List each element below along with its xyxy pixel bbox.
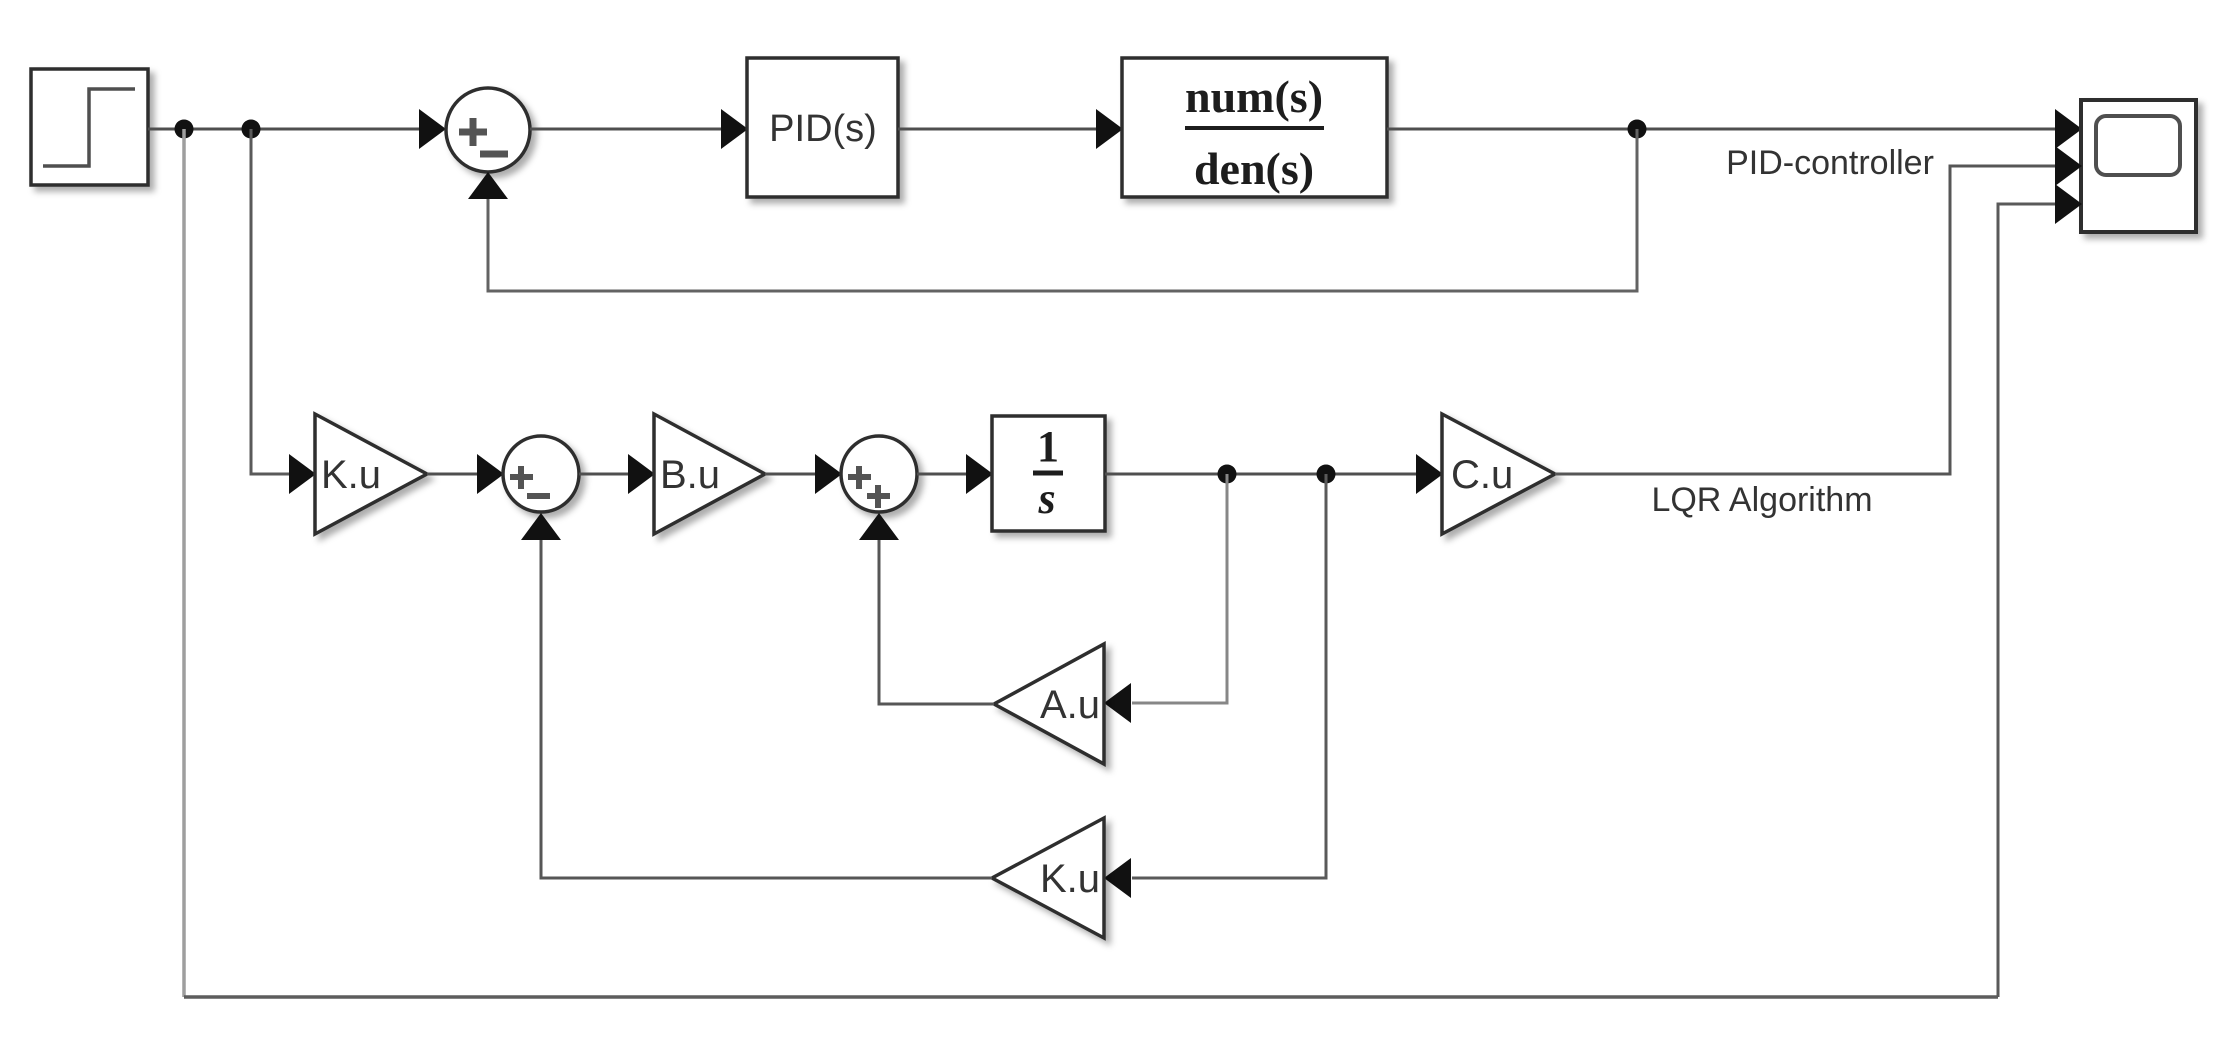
arrowhead into sum3 <box>815 454 842 494</box>
arrowhead into sum3 bottom <box>859 513 899 540</box>
gain block A.u (left pointing) <box>994 644 1104 764</box>
node junction dot D <box>1218 465 1237 484</box>
wire from node E down and left into gain K.u lower <box>1132 474 1326 878</box>
wire PID feedback from node C down and left to sum1 <box>488 129 1637 291</box>
gain block C.u <box>1442 414 1555 534</box>
wire gain B.u to sum3 <box>765 473 816 476</box>
arrowhead into gain K.u <box>289 454 316 494</box>
arrowhead into gain B.u <box>628 454 655 494</box>
step source block Step <box>31 69 148 185</box>
sum junction Sum1 (+-) <box>446 88 530 172</box>
wire sum1 to PID <box>530 128 722 131</box>
node junction dot C <box>1628 120 1647 139</box>
node junction dot B <box>242 120 261 139</box>
svg-text:1: 1 <box>1037 422 1059 471</box>
arrowhead into gain C.u <box>1416 454 1443 494</box>
svg-text:B.u: B.u <box>660 453 720 497</box>
svg-text:C.u: C.u <box>1451 453 1513 497</box>
arrowhead into sum1 bottom <box>468 172 508 199</box>
svg-text:PID-controller: PID-controller <box>1726 144 1934 182</box>
svg-text:K.u: K.u <box>1040 857 1100 901</box>
svg-text:den(s): den(s) <box>1194 143 1314 194</box>
arrowhead into gain K.u lower <box>1104 858 1131 898</box>
svg-text:K.u: K.u <box>321 453 381 497</box>
gain block K.u lower (left pointing) <box>992 818 1104 938</box>
integrator block 1/s <box>992 416 1105 531</box>
svg-text:num(s): num(s) <box>1185 71 1323 122</box>
wire bottom horizontal to the right <box>184 995 1998 999</box>
wire transfer fcn to scope input 1 <box>1387 128 2056 131</box>
gain block K.u (row 2 first) <box>315 414 427 534</box>
svg-text:A.u: A.u <box>1040 683 1100 727</box>
wire PID to transfer fcn <box>898 128 1097 131</box>
arrowhead into scope input 1 <box>2055 109 2082 149</box>
wire gain K.u to sum2 <box>427 473 478 476</box>
wire gain A.u output left and up to sum3 bottom <box>879 540 994 704</box>
arrowhead into PID <box>721 109 748 149</box>
wire from node B down to gain K.u input <box>251 129 290 474</box>
node junction dot E <box>1317 465 1336 484</box>
transfer function block num(s)/den(s) <box>1122 58 1387 197</box>
gain block B.u <box>654 414 765 534</box>
wire gain K.u lower output left and up to sum2 bottom <box>541 540 992 878</box>
svg-text:PID(s): PID(s) <box>769 108 877 150</box>
wire sum3 to integrator <box>917 473 967 476</box>
arrowhead into integrator <box>966 454 993 494</box>
sum junction Sum2 (+-) <box>503 436 579 512</box>
wire gain C.u up to scope input 2 <box>1555 166 2056 474</box>
arrowhead into scope input 3 <box>2055 184 2082 224</box>
wire from node A down along left edge (light) <box>182 129 186 997</box>
arrowhead into sum1 <box>419 109 446 149</box>
wire right vertical up to scope input 3 <box>1998 204 2056 997</box>
wire sum2 to gain B.u <box>579 473 629 476</box>
arrowhead into sum2 <box>477 454 504 494</box>
node junction dot A <box>175 120 194 139</box>
arrowhead into scope input 2 <box>2055 146 2082 186</box>
svg-text:LQR Algorithm: LQR Algorithm <box>1651 481 1872 519</box>
scope block Scope <box>2081 100 2196 232</box>
svg-text:s: s <box>1037 474 1055 523</box>
wire integrator to gain C.u <box>1105 473 1417 476</box>
sum junction Sum3 (++) <box>841 436 917 512</box>
arrowhead into transfer fcn <box>1096 109 1123 149</box>
arrowhead into sum2 bottom <box>521 513 561 540</box>
wire step to sum1 <box>148 128 420 131</box>
wire from node D down and left into gain A.u <box>1132 474 1227 703</box>
PID controller block PID(s) <box>747 58 898 197</box>
arrowhead into gain A.u <box>1104 683 1131 723</box>
